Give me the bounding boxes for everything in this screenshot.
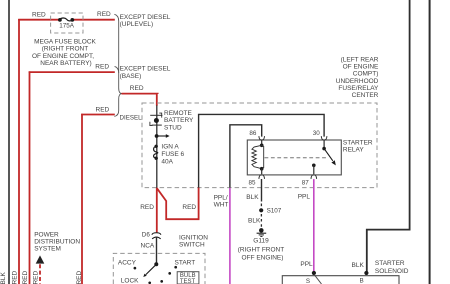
svg-text:STUD: STUD [164, 125, 182, 132]
label STARTER SOLENOID [375, 260, 409, 275]
svg-text:MEGA FUSE BLOCK: MEGA FUSE BLOCK [34, 38, 96, 45]
svg-text:PPL: PPL [300, 261, 313, 268]
wire: RED vertical 3 [81, 114, 83, 284]
svg-text:RED: RED [97, 11, 111, 18]
svg-text:RED: RED [140, 204, 154, 211]
svg-text:REMOTE: REMOTE [164, 110, 192, 117]
contact ACCY [134, 267, 137, 270]
relay switch blade [322, 141, 335, 166]
svg-text:(UPLEVEL): (UPLEVEL) [120, 21, 154, 28]
svg-text:30: 30 [313, 130, 321, 137]
ground G119 [257, 228, 267, 236]
label STARTER RELAY [343, 140, 373, 154]
svg-text:STARTER: STARTER [375, 260, 405, 267]
svg-text:D6: D6 [142, 231, 151, 238]
label REMOTE BATTERY STUD [164, 110, 194, 132]
fuse IGN A FUSE 6 40A [154, 145, 158, 160]
svg-text:FUSE/RELAY: FUSE/RELAY [338, 85, 379, 92]
svg-text:OF ENGINE: OF ENGINE [343, 64, 379, 71]
terminal 85 (bottom) [259, 175, 265, 179]
svg-text:87: 87 [302, 179, 310, 186]
terminal 87 (bottom) [311, 175, 317, 179]
wire: BLK trunk (far left vertical) [8, 0, 10, 284]
svg-text:EXCEPT DIESEL: EXCEPT DIESEL [120, 66, 171, 73]
svg-text:NEAR BATTERY): NEAR BATTERY) [40, 60, 91, 67]
wire: feed to relay terminal 30 [199, 114, 325, 187]
svg-text:BLK: BLK [0, 272, 7, 284]
svg-text:COMPT): COMPT) [353, 71, 379, 78]
svg-text:IGNITION: IGNITION [179, 235, 208, 242]
wire: RED horizontal 2 (base) [29, 71, 115, 73]
svg-text:IGN A: IGN A [161, 144, 179, 151]
fuse 175A element [58, 18, 74, 22]
svg-text:(BASE): (BASE) [120, 73, 142, 80]
contact (mid) [160, 280, 163, 283]
label EXCEPT DIESEL (BASE) [120, 66, 171, 80]
wire: PPL from 87 to solenoid [313, 179, 315, 273]
svg-text:SYSTEM: SYSTEM [34, 246, 61, 253]
svg-text:SWITCH: SWITCH [179, 242, 205, 249]
mega fuse block dashed box [51, 13, 83, 33]
svg-text:LOCK: LOCK [121, 278, 139, 284]
wire: RED loop branch (diagonal) [157, 187, 200, 219]
label IGN A FUSE 6 40A [161, 144, 184, 166]
mechanical linkage (dashed) [265, 157, 328, 159]
svg-text:S: S [306, 278, 310, 284]
label POWER DISTRIBUTION SYSTEM [34, 232, 80, 253]
wire: RED down to D6 connector [156, 188, 158, 232]
svg-text:WHT: WHT [214, 201, 229, 208]
svg-text:DISTRIBUTION: DISTRIBUTION [34, 239, 80, 246]
contact BULB TEST [168, 272, 171, 275]
svg-text:BLK: BLK [248, 218, 261, 225]
wire: stud column (black) [156, 105, 158, 188]
svg-text:40A: 40A [161, 158, 173, 165]
svg-text:RED: RED [76, 270, 83, 284]
svg-text:86: 86 [249, 130, 257, 137]
svg-text:OF ENGINE COMPT,: OF ENGINE COMPT, [32, 53, 94, 60]
options brace [114, 14, 122, 116]
wire: PPL/WHT black portion inside box [230, 125, 262, 188]
contact START [174, 266, 177, 269]
relay fixed contact 87 [312, 164, 316, 175]
svg-text:POWER: POWER [34, 232, 59, 239]
node: S terminal dot [312, 271, 316, 275]
underhood fuse/relay center dashed box [142, 103, 377, 188]
svg-text:EXCEPT DIESEL: EXCEPT DIESEL [120, 14, 171, 21]
label G119 (RIGHT FRONT OFF ENGINE) [238, 237, 284, 261]
wire: BLK from 85 to S107 [261, 179, 263, 202]
svg-text:RED: RED [12, 270, 19, 284]
svg-text:(RIGHT FRONT: (RIGHT FRONT [238, 246, 284, 253]
svg-text:DIESEL: DIESEL [120, 115, 143, 122]
svg-text:OFF ENGINE): OFF ENGINE) [242, 255, 284, 262]
remote battery stud [150, 113, 163, 126]
svg-text:RELAY: RELAY [343, 146, 364, 153]
svg-text:BATTERY: BATTERY [164, 117, 194, 124]
svg-text:RED: RED [22, 270, 29, 284]
svg-text:BLK: BLK [352, 262, 365, 269]
connector D6 [152, 233, 161, 239]
svg-text:175A: 175A [59, 23, 75, 30]
wire: dashed to splice [260, 204, 262, 207]
label BULB TEST [180, 273, 196, 284]
terminal 86 (top) [259, 136, 265, 140]
wire: PPL/WHT magenta portion [229, 188, 231, 284]
splice S107 [259, 208, 263, 212]
node: B terminal dot [364, 271, 368, 275]
label MEGA FUSE BLOCK [32, 38, 97, 67]
svg-text:BLK: BLK [246, 194, 259, 201]
node: junction with branch arrow [155, 134, 170, 138]
svg-text:RED: RED [33, 270, 40, 284]
svg-text:RED: RED [182, 204, 196, 211]
svg-text:START: START [175, 260, 196, 267]
wire: RED horizontal to fuse (uplevel) [18, 19, 59, 21]
wire: right trunk 2 [429, 0, 431, 284]
wire: RED vertical 1 [18, 19, 20, 284]
wire: RED merged output [122, 94, 158, 106]
ignition switch dashed box [113, 253, 205, 284]
svg-text:RED: RED [130, 85, 144, 92]
wire: RED horizontal 3 (diesel) [81, 114, 115, 116]
solenoid internal blade [314, 275, 321, 284]
wire: RED dashed stub to power distribution [39, 264, 41, 284]
starter solenoid box [282, 276, 399, 284]
wire: RED horizontal from fuse to brace [73, 19, 115, 21]
svg-text:ACCY: ACCY [118, 260, 137, 267]
wire: black to ignition switch [156, 237, 158, 265]
label PPL/WHT [214, 195, 229, 209]
label IGNITION SWITCH [179, 235, 208, 249]
svg-text:CENTER: CENTER [352, 92, 379, 99]
svg-text:PPL: PPL [298, 194, 311, 201]
svg-text:85: 85 [249, 179, 257, 186]
svg-text:S107: S107 [267, 208, 282, 215]
arrow to power distribution system [36, 255, 45, 263]
svg-text:(LEFT REAR: (LEFT REAR [341, 57, 379, 64]
svg-text:TEST: TEST [180, 279, 196, 284]
contact LOCK [148, 281, 151, 284]
ignition switch common node and blade [143, 262, 158, 277]
wire: dashed to ground [260, 214, 262, 227]
terminal 30 (top) [321, 136, 327, 140]
svg-text:UNDERHOOD: UNDERHOOD [336, 78, 379, 85]
svg-text:(RIGHT FRONT: (RIGHT FRONT [42, 46, 88, 53]
svg-text:RED: RED [32, 11, 46, 18]
svg-text:FUSE 6: FUSE 6 [161, 151, 184, 158]
svg-text:G119: G119 [253, 237, 269, 244]
svg-text:NCA: NCA [141, 243, 155, 250]
relay coil [252, 141, 264, 175]
wire: right trunk 1 (to solenoid B) [367, 0, 410, 273]
svg-text:RED: RED [96, 106, 110, 113]
starter relay box [247, 140, 341, 175]
wire: RED vertical 2 [29, 71, 31, 284]
label (LEFT REAR OF ENGINE COMPT) UNDERHOOD FUSE/RELAY CENTER [336, 57, 379, 100]
bulb test box [177, 272, 199, 284]
svg-text:RED: RED [95, 64, 109, 71]
label EXCEPT DIESEL (UPLEVEL) [120, 14, 171, 28]
svg-text:B: B [360, 278, 364, 284]
svg-text:SOLENOID: SOLENOID [375, 268, 409, 275]
